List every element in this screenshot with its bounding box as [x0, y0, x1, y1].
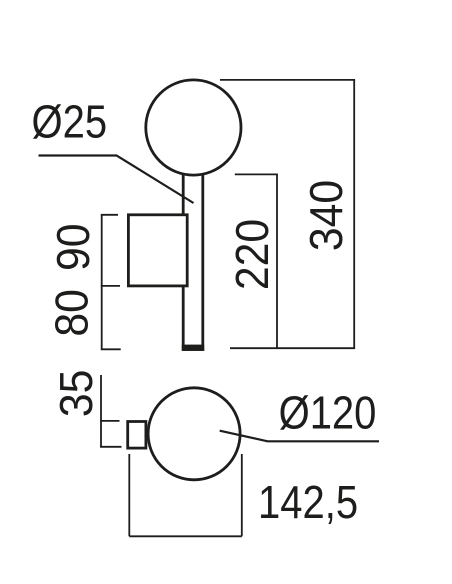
- svg-text:90: 90: [48, 223, 99, 271]
- leader line for Ø25: [39, 156, 194, 204]
- dimension 220: top tick: [235, 173, 278, 175]
- dimension 142,5: right extension line: [241, 454, 243, 536]
- dimension 35: vertical dimension line: [100, 375, 102, 447]
- top view: wall bracket rectangle: [128, 422, 146, 449]
- dimension 142,5: left extension line: [128, 454, 130, 536]
- svg-text:Ø120: Ø120: [279, 388, 377, 439]
- rod (front view stem): [183, 168, 203, 349]
- sphere (front view): [146, 80, 241, 175]
- svg-text:220: 220: [228, 219, 279, 290]
- dimension 340: bottom extension line: [230, 347, 355, 349]
- svg-text:340: 340: [301, 180, 352, 251]
- svg-text:35: 35: [51, 370, 102, 418]
- dimension 142,5: bottom dimension line: [129, 535, 242, 537]
- svg-text:Ø25: Ø25: [32, 97, 108, 148]
- dimension 90/80: vertical dimension line: [101, 215, 103, 349]
- leader line for Ø120: [220, 431, 379, 442]
- wall bracket (front view): [128, 215, 187, 286]
- dimension 340: vertical dimension line: [353, 80, 355, 348]
- dimension 35: top tick: [100, 420, 119, 422]
- dimension 340: top extension line: [220, 79, 355, 81]
- dimension 80: bottom tick: [101, 348, 121, 350]
- dimension 90: top tick: [101, 214, 118, 216]
- dimension 90/80: middle tick: [101, 285, 120, 287]
- rod bottom cap: [182, 345, 204, 351]
- svg-text:142,5: 142,5: [258, 477, 358, 528]
- top view: lamp sphere circle: [148, 388, 240, 480]
- dimension 35: bottom tick: [100, 446, 121, 448]
- svg-text:80: 80: [47, 289, 98, 337]
- dimension 220: vertical dimension line: [276, 174, 278, 348]
